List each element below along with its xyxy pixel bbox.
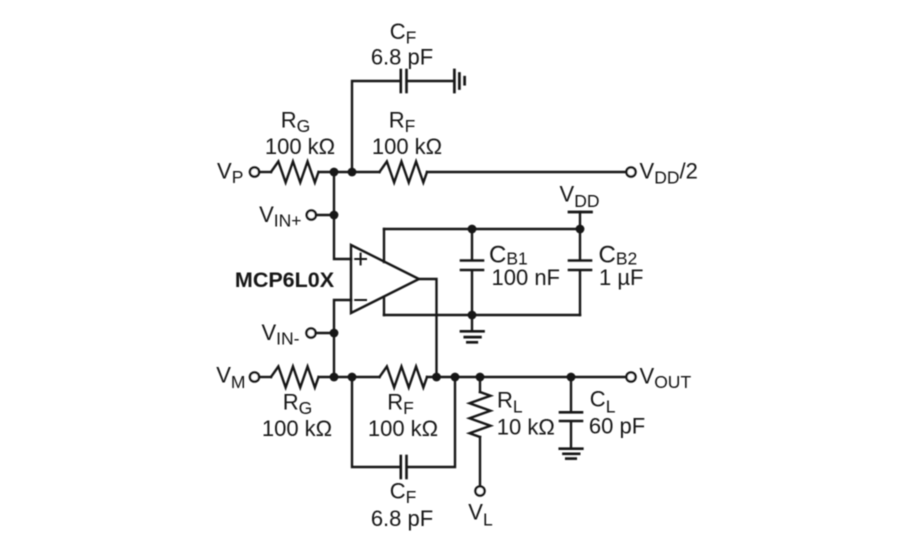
label CF bottom	[371, 479, 433, 531]
svg-text:VDD/2: VDD/2	[640, 159, 698, 188]
op-amp U1	[351, 245, 419, 313]
junction node D	[348, 373, 357, 382]
wire CB1 top	[471, 229, 473, 259]
ground CB1	[461, 331, 484, 342]
svg-text:100 kΩ: 100 kΩ	[262, 416, 332, 441]
svg-text:CL: CL	[590, 387, 616, 417]
wire CL bottom	[570, 422, 572, 447]
junction CF right	[451, 373, 460, 382]
wire V+ power stub	[383, 229, 385, 262]
wire VP to RG	[259, 171, 271, 173]
wire RL top	[479, 377, 481, 392]
capacitor CF top	[401, 70, 407, 92]
wire -input vertical	[334, 300, 351, 377]
junction CL	[567, 373, 576, 382]
label CB2	[599, 241, 644, 290]
capacitor CB1	[461, 261, 483, 271]
capacitor CF bottom	[401, 456, 407, 478]
svg-text:VIN+: VIN+	[259, 202, 301, 231]
wire node A down to +input	[334, 172, 351, 259]
svg-text:CF: CF	[390, 479, 417, 508]
svg-text:VL: VL	[468, 499, 493, 529]
wire RF to VDD/2 terminal	[427, 171, 626, 173]
wire CL top	[570, 377, 572, 411]
capacitor CL	[560, 412, 582, 421]
junction CB1 top	[468, 225, 477, 234]
svg-text:CF: CF	[390, 19, 417, 48]
wire VDD top rail	[384, 228, 580, 230]
wire RG to RF bottom	[319, 376, 380, 378]
resistor RG bottom	[271, 367, 318, 388]
ground (sideways, CF top)	[454, 70, 464, 92]
junction output	[432, 373, 441, 382]
svg-text:RG: RG	[281, 108, 311, 137]
svg-text:10 kΩ: 10 kΩ	[497, 414, 555, 439]
junction VIN-	[330, 329, 339, 338]
svg-text:RG: RG	[283, 390, 313, 419]
svg-text:VIN-: VIN-	[261, 320, 299, 349]
label RL	[497, 387, 555, 439]
wire V- power stub	[383, 297, 385, 315]
wire RF to VOUT terminal	[427, 376, 626, 378]
label CL	[589, 387, 645, 439]
svg-text:RL: RL	[497, 387, 523, 416]
terminal VIN-	[306, 328, 315, 337]
label RF top	[372, 108, 442, 160]
svg-text:RF: RF	[389, 108, 416, 137]
terminal VOUT	[626, 372, 635, 381]
wire CF top right	[408, 80, 453, 82]
wire VM to RG	[259, 376, 271, 378]
terminal VM	[250, 372, 259, 381]
terminal VIN+	[307, 210, 316, 219]
wire CF bottom right	[408, 377, 455, 467]
resistor RL	[470, 392, 491, 437]
wire CF top loop left	[352, 81, 400, 172]
resistor RF bottom	[380, 367, 427, 388]
terminal VL	[475, 486, 484, 495]
op-amp minus sign	[355, 299, 366, 301]
svg-text:100 kΩ: 100 kΩ	[372, 134, 442, 159]
capacitor CB2	[569, 261, 591, 271]
wire RG to RF	[319, 171, 380, 173]
supply bar VDD	[569, 211, 592, 214]
junction node A	[330, 168, 339, 177]
svg-text:100 kΩ: 100 kΩ	[265, 134, 335, 159]
label RG bottom	[262, 390, 332, 442]
junction VDD rail	[576, 225, 585, 234]
label CB1	[489, 241, 560, 290]
svg-text:100 kΩ: 100 kΩ	[368, 416, 438, 441]
wire CB1 ground stub	[471, 315, 473, 330]
svg-text:6.8 pF: 6.8 pF	[371, 506, 433, 531]
svg-text:60 pF: 60 pF	[589, 414, 645, 439]
ground CL	[560, 449, 583, 459]
op-amp plus sign	[355, 254, 366, 265]
wire CF bottom loop	[352, 377, 400, 467]
svg-text:VOUT: VOUT	[640, 363, 692, 392]
svg-text:MCP6L0X: MCP6L0X	[235, 268, 335, 292]
svg-text:VP: VP	[217, 159, 243, 188]
label CF top	[371, 19, 433, 70]
resistor RG top	[271, 162, 318, 183]
svg-text:6.8 pF: 6.8 pF	[371, 45, 433, 70]
junction node C	[330, 373, 339, 382]
terminal VP	[250, 167, 259, 176]
wire VIN+ to node	[316, 214, 334, 216]
resistor RF top	[380, 162, 427, 183]
wire op-amp output	[419, 279, 437, 377]
svg-text:VDD: VDD	[560, 182, 600, 211]
label RF bottom	[368, 390, 438, 442]
wire Vss bottom rail	[384, 314, 580, 316]
junction RL	[476, 373, 485, 382]
svg-text:RF: RF	[387, 390, 414, 419]
terminal VDD/2	[626, 167, 635, 176]
svg-text:VM: VM	[216, 363, 245, 392]
wire CB2 bottom	[579, 271, 581, 315]
svg-text:1 µF: 1 µF	[599, 265, 643, 290]
junction node B	[348, 168, 357, 177]
junction VIN+	[330, 211, 339, 220]
wire CB1 bottom	[471, 271, 473, 315]
wire VIN- to node	[316, 332, 334, 334]
wire VDD stub	[579, 212, 581, 229]
wire CB2 top	[579, 229, 581, 259]
junction CB1 bottom	[468, 311, 477, 320]
label RG top	[265, 108, 335, 160]
wire RL to VL	[479, 437, 481, 486]
svg-text:100 nF: 100 nF	[492, 265, 561, 290]
